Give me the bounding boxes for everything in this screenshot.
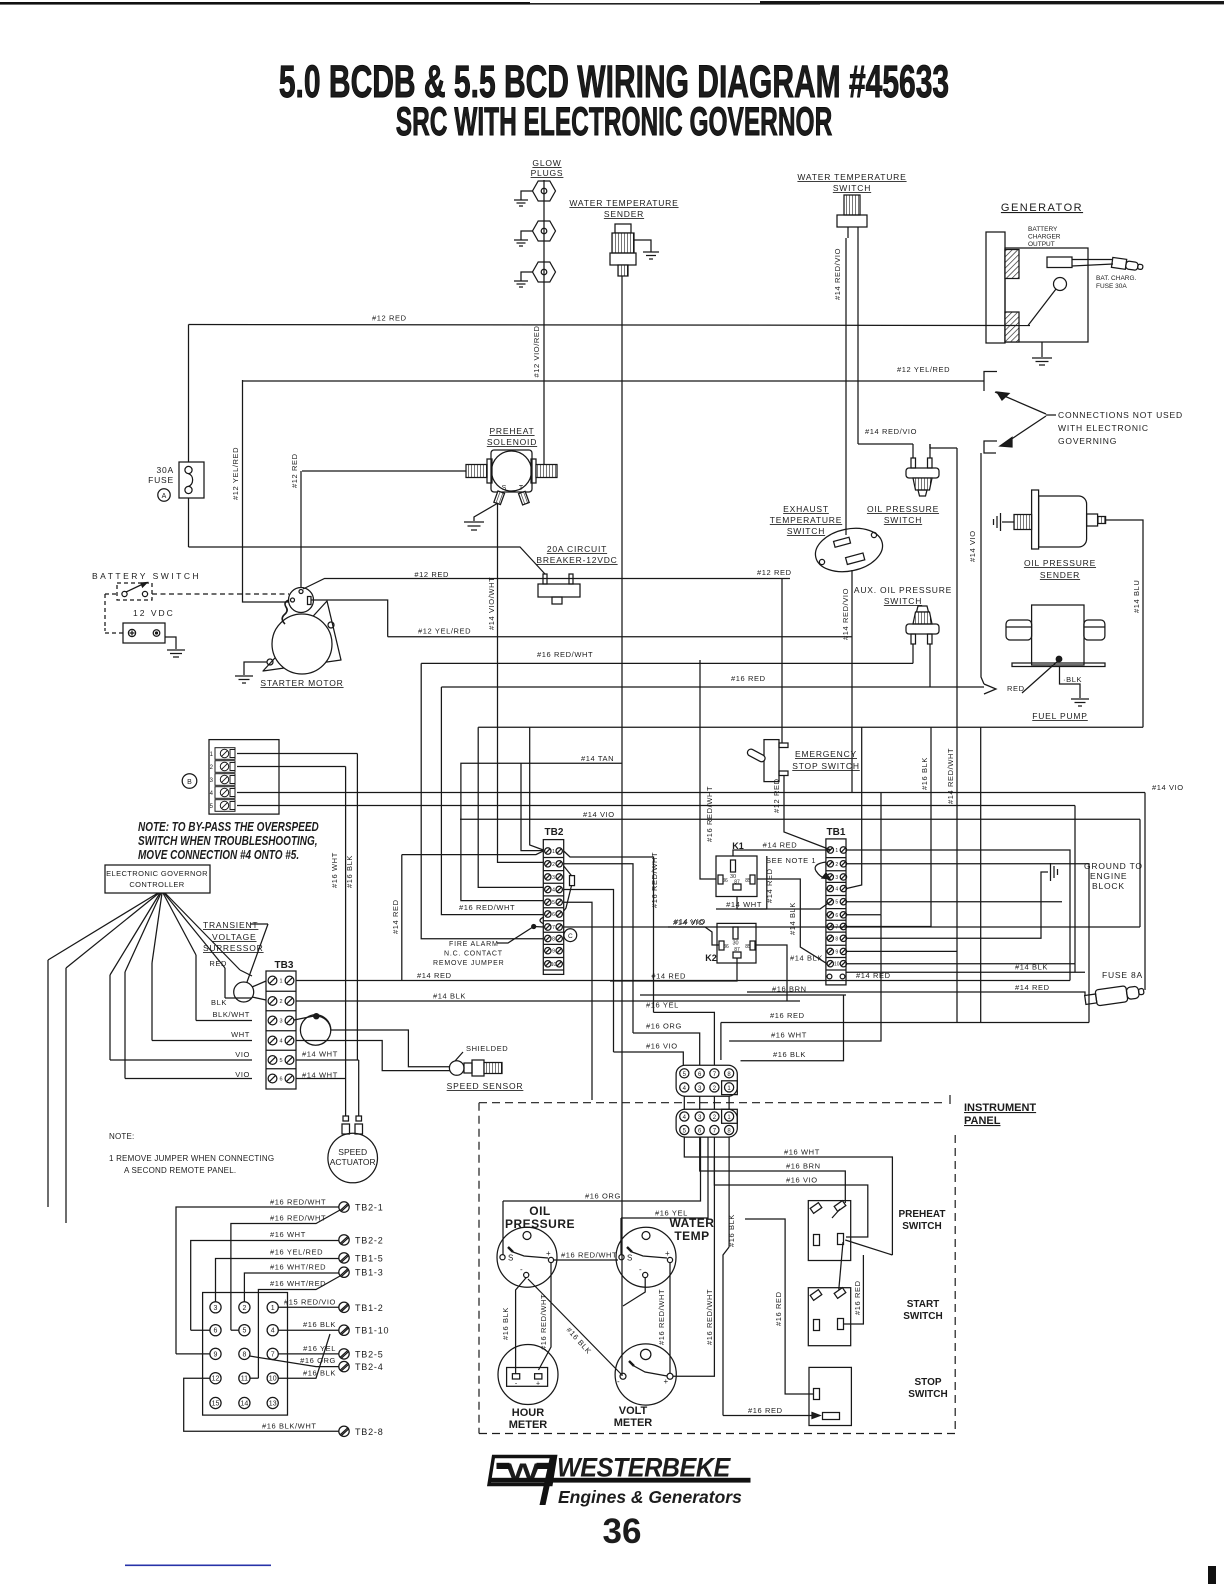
- svg-text:METER: METER: [509, 1419, 548, 1431]
- svg-text:TB1-3: TB1-3: [355, 1268, 384, 1278]
- svg-text:PLUGS: PLUGS: [531, 168, 564, 178]
- svg-text:SRC WITH ELECTRONIC GOVERNOR: SRC WITH ELECTRONIC GOVERNOR: [396, 100, 833, 145]
- svg-text:EMERGENCY: EMERGENCY: [795, 749, 857, 759]
- svg-text:10: 10: [269, 1376, 277, 1383]
- svg-text:FIRE ALARM: FIRE ALARM: [449, 941, 499, 948]
- svg-text:BLK: BLK: [211, 998, 227, 1007]
- svg-text:4: 4: [271, 1328, 275, 1335]
- svg-text:6: 6: [835, 913, 838, 919]
- svg-text:#16 VIO: #16 VIO: [646, 1042, 678, 1051]
- svg-text:TB1-10: TB1-10: [355, 1326, 389, 1336]
- svg-text:GENERATOR: GENERATOR: [1001, 202, 1083, 214]
- svg-text:#14 BLK: #14 BLK: [1015, 963, 1048, 972]
- svg-text:SWITCH WHEN TROUBLESHOOTING,: SWITCH WHEN TROUBLESHOOTING,: [138, 835, 318, 848]
- svg-text:1 REMOVE JUMPER WHEN CONNECT: 1 REMOVE JUMPER WHEN CONNECTING: [109, 1154, 274, 1163]
- svg-text:6: 6: [552, 912, 555, 918]
- svg-text:WATER: WATER: [670, 1216, 715, 1230]
- svg-text:5: 5: [242, 1328, 246, 1335]
- svg-text:WHT: WHT: [231, 1030, 250, 1039]
- svg-text:N.C. CONTACT: N.C. CONTACT: [444, 951, 503, 958]
- svg-text:#16 RED/WHT: #16 RED/WHT: [705, 786, 714, 842]
- svg-text:14: 14: [241, 1401, 249, 1408]
- svg-text:#14 TAN: #14 TAN: [581, 754, 614, 763]
- svg-text:TB2-2: TB2-2: [355, 1235, 384, 1245]
- svg-text:2: 2: [242, 1305, 246, 1312]
- svg-text:TB1-5: TB1-5: [355, 1253, 384, 1263]
- svg-text:+: +: [664, 1377, 669, 1386]
- svg-text:TB2-1: TB2-1: [355, 1203, 384, 1213]
- svg-text:#16 RED/WHT: #16 RED/WHT: [459, 903, 515, 912]
- svg-text:SWITCH: SWITCH: [908, 1389, 947, 1400]
- svg-text:87: 87: [734, 947, 740, 953]
- svg-text:#16 YEL: #16 YEL: [646, 1001, 679, 1010]
- svg-text:#16 RED/WHT: #16 RED/WHT: [537, 650, 593, 659]
- svg-text:9: 9: [552, 949, 555, 955]
- svg-text:BAT. CHARG.: BAT. CHARG.: [1096, 275, 1137, 282]
- svg-text:#12 VIO/RED: #12 VIO/RED: [532, 325, 541, 377]
- svg-text:8: 8: [552, 937, 555, 943]
- svg-text:#14 RED/WHT: #14 RED/WHT: [946, 748, 955, 804]
- svg-text:S: S: [627, 1254, 632, 1263]
- svg-text:#16 WHT: #16 WHT: [771, 1031, 807, 1040]
- svg-text:86: 86: [722, 878, 728, 884]
- svg-text:FUSE: FUSE: [148, 475, 174, 485]
- svg-text:#16 BLK: #16 BLK: [727, 1214, 736, 1247]
- svg-text:5: 5: [279, 1058, 282, 1064]
- svg-text:STOP: STOP: [914, 1377, 941, 1388]
- svg-text:STOP SWITCH: STOP SWITCH: [792, 761, 860, 771]
- svg-text:#14 BLK: #14 BLK: [790, 954, 823, 963]
- svg-text:TB3: TB3: [275, 960, 294, 971]
- svg-text:#14 RED/VIO: #14 RED/VIO: [841, 588, 850, 640]
- svg-text:#14 VIO: #14 VIO: [968, 530, 977, 562]
- svg-text:5: 5: [552, 900, 555, 906]
- svg-text:CONNECTIONS NOT USED: CONNECTIONS NOT USED: [1058, 410, 1183, 420]
- svg-text:3: 3: [279, 1019, 282, 1025]
- svg-text:#16 YEL/RED: #16 YEL/RED: [270, 1248, 323, 1257]
- svg-text:11: 11: [241, 1376, 248, 1383]
- svg-text:SOLENOID: SOLENOID: [487, 437, 537, 447]
- svg-text:#14 RED: #14 RED: [765, 868, 774, 903]
- svg-text:85: 85: [745, 944, 751, 950]
- svg-text:#16 RED/WHT: #16 RED/WHT: [561, 1251, 617, 1260]
- svg-text:STARTER MOTOR: STARTER MOTOR: [260, 678, 343, 688]
- svg-text:#16 RED/WHT: #16 RED/WHT: [270, 1214, 326, 1223]
- svg-text:OIL PRESSURE: OIL PRESSURE: [1024, 558, 1096, 568]
- svg-text:GROUND TO: GROUND TO: [1084, 861, 1143, 871]
- svg-text:EXHAUST: EXHAUST: [783, 504, 829, 514]
- svg-text:SWITCH: SWITCH: [787, 526, 825, 536]
- svg-text:6: 6: [214, 1328, 218, 1335]
- svg-text:#16 BLK: #16 BLK: [345, 855, 354, 888]
- svg-text:SWITCH: SWITCH: [903, 1311, 942, 1322]
- svg-text:2: 2: [279, 999, 282, 1005]
- svg-text:SWITCH: SWITCH: [884, 515, 922, 525]
- svg-text:#12 YEL/RED: #12 YEL/RED: [231, 447, 240, 500]
- svg-text:#16 ORG: #16 ORG: [300, 1356, 336, 1365]
- svg-text:INSTRUMENT: INSTRUMENT: [964, 1102, 1036, 1114]
- svg-text:#16 WHT: #16 WHT: [330, 852, 339, 888]
- svg-text:GLOW: GLOW: [532, 158, 561, 168]
- svg-text:1: 1: [279, 979, 282, 985]
- svg-text:#12 RED: #12 RED: [414, 570, 449, 579]
- svg-text:#16 RED/WHT: #16 RED/WHT: [650, 852, 659, 908]
- svg-text:#12 YEL/RED: #12 YEL/RED: [897, 365, 950, 374]
- svg-text:#16 RED: #16 RED: [853, 1280, 862, 1315]
- svg-text:#12 RED: #12 RED: [757, 568, 792, 577]
- svg-text:SEE NOTE 1: SEE NOTE 1: [766, 856, 816, 865]
- svg-text:3: 3: [835, 875, 838, 881]
- svg-text:#16 WHT/RED: #16 WHT/RED: [270, 1263, 326, 1272]
- svg-text:#12 RED: #12 RED: [290, 453, 299, 488]
- svg-text:#14 VIO: #14 VIO: [674, 917, 706, 926]
- svg-text:1: 1: [271, 1305, 275, 1312]
- svg-text:+: +: [536, 1381, 540, 1388]
- svg-text:A: A: [162, 493, 167, 500]
- svg-text:30: 30: [732, 941, 738, 947]
- svg-text:-: -: [639, 1265, 642, 1274]
- svg-text:#12 RED: #12 RED: [772, 778, 781, 813]
- svg-text:#14 VIO: #14 VIO: [583, 810, 615, 819]
- svg-text:2: 2: [835, 862, 838, 868]
- svg-text:85: 85: [745, 878, 751, 884]
- svg-text:B: B: [187, 779, 192, 786]
- svg-text:#16 VIO: #16 VIO: [786, 1176, 818, 1185]
- svg-text:MOVE CONNECTION #4 ONTO #5.: MOVE CONNECTION #4 ONTO #5.: [138, 849, 299, 862]
- svg-text:#16 WHT: #16 WHT: [784, 1148, 820, 1157]
- svg-text:#14 WHT: #14 WHT: [726, 900, 762, 909]
- svg-text:ACTUATOR: ACTUATOR: [330, 1157, 376, 1167]
- svg-text:#12 RED: #12 RED: [372, 314, 407, 323]
- svg-text:36: 36: [603, 1512, 642, 1551]
- svg-text:TB1-2: TB1-2: [355, 1303, 384, 1313]
- svg-text:WATER TEMPERATURE: WATER TEMPERATURE: [569, 198, 678, 208]
- svg-text:10: 10: [834, 962, 840, 968]
- svg-text:CHARGER: CHARGER: [1028, 234, 1061, 241]
- svg-text:RED: RED: [209, 959, 227, 968]
- svg-text:BATTERY: BATTERY: [1028, 226, 1058, 233]
- svg-text:1: 1: [835, 848, 838, 854]
- svg-text:T: T: [519, 485, 524, 492]
- svg-text:#16 RED: #16 RED: [731, 674, 766, 683]
- svg-text:PANEL: PANEL: [964, 1115, 1001, 1127]
- svg-text:FUEL PUMP: FUEL PUMP: [1032, 711, 1088, 721]
- svg-text:4: 4: [279, 1039, 282, 1045]
- svg-text:TB1: TB1: [827, 827, 846, 838]
- svg-text:6: 6: [279, 1077, 282, 1083]
- svg-text:BATTERY SWITCH: BATTERY SWITCH: [92, 571, 201, 581]
- svg-text:8: 8: [242, 1351, 246, 1358]
- svg-text:#14 RED: #14 RED: [391, 899, 400, 934]
- svg-text:#14 RED: #14 RED: [1015, 983, 1050, 992]
- svg-text:8: 8: [835, 936, 838, 942]
- svg-text:TB2-5: TB2-5: [355, 1349, 384, 1359]
- svg-text:K2: K2: [705, 953, 717, 963]
- svg-text:#16 RED: #16 RED: [774, 1291, 783, 1326]
- svg-text:FUSE 8A: FUSE 8A: [1102, 970, 1143, 980]
- svg-text:FUSE 30A: FUSE 30A: [1096, 283, 1127, 290]
- svg-text:3: 3: [552, 875, 555, 881]
- svg-text:PREHEAT: PREHEAT: [489, 426, 534, 436]
- svg-text:SUPRESSOR: SUPRESSOR: [203, 943, 264, 953]
- svg-text:TRANSIENT: TRANSIENT: [203, 920, 258, 930]
- svg-text:OIL: OIL: [529, 1204, 551, 1218]
- svg-text:#14 BLU: #14 BLU: [1132, 580, 1141, 613]
- svg-text:HOUR: HOUR: [512, 1407, 544, 1419]
- svg-text:#14 RED: #14 RED: [763, 841, 798, 850]
- svg-text:#16 RED: #16 RED: [770, 1011, 805, 1020]
- svg-text:TB2-8: TB2-8: [355, 1427, 384, 1437]
- svg-text:SWITCH: SWITCH: [833, 183, 871, 193]
- svg-text:CONTROLLER: CONTROLLER: [129, 880, 184, 889]
- svg-text:#14 VIO: #14 VIO: [1152, 783, 1184, 792]
- svg-text:S: S: [502, 485, 507, 492]
- svg-text:#16 YEL: #16 YEL: [303, 1344, 336, 1353]
- svg-text:#16 BLK: #16 BLK: [303, 1369, 336, 1378]
- svg-text:15: 15: [212, 1401, 220, 1408]
- svg-text:SPEED SENSOR: SPEED SENSOR: [447, 1081, 524, 1091]
- svg-text:A SECOND REMOTE PANEL.: A SECOND REMOTE PANEL.: [124, 1166, 236, 1175]
- svg-text:#14 RED/VIO: #14 RED/VIO: [865, 427, 917, 436]
- svg-text:5: 5: [835, 900, 838, 906]
- svg-text:VIO: VIO: [235, 1070, 250, 1079]
- svg-text:#16 WHT: #16 WHT: [270, 1230, 306, 1239]
- svg-text:BREAKER-12VDC: BREAKER-12VDC: [536, 555, 617, 565]
- svg-text:ELECTRONIC GOVERNOR: ELECTRONIC GOVERNOR: [106, 869, 208, 878]
- svg-text:#16 ORG: #16 ORG: [646, 1021, 682, 1030]
- svg-text:TEMPERATURE: TEMPERATURE: [770, 515, 842, 525]
- svg-text:C: C: [568, 933, 573, 940]
- svg-text:#16 BLK: #16 BLK: [920, 757, 929, 790]
- svg-text:9: 9: [214, 1351, 218, 1358]
- svg-text:#14 RED: #14 RED: [651, 972, 686, 981]
- svg-text:ENGINE: ENGINE: [1090, 871, 1127, 881]
- svg-text:RED: RED: [1007, 684, 1025, 693]
- svg-text:#14 RED/VIO: #14 RED/VIO: [833, 248, 842, 300]
- svg-text:TB2-4: TB2-4: [355, 1362, 384, 1372]
- svg-text:#14 BLK: #14 BLK: [433, 992, 466, 1001]
- svg-text:TB2: TB2: [545, 827, 564, 838]
- svg-text:#16 RED/WHT: #16 RED/WHT: [657, 1289, 666, 1345]
- svg-text:#16 ORG: #16 ORG: [585, 1192, 621, 1201]
- svg-text:1: 1: [552, 849, 555, 855]
- svg-text:AUX. OIL PRESSURE: AUX. OIL PRESSURE: [854, 585, 952, 595]
- svg-text:BLOCK: BLOCK: [1092, 881, 1125, 891]
- svg-text:OUTPUT: OUTPUT: [1028, 241, 1055, 248]
- svg-text:4: 4: [835, 887, 838, 893]
- svg-text:#16 BLK: #16 BLK: [303, 1320, 336, 1329]
- svg-text:NOTE: TO BY-PASS THE OVERSPEED: NOTE: TO BY-PASS THE OVERSPEED: [138, 821, 319, 834]
- svg-text:3: 3: [214, 1305, 218, 1312]
- svg-text:·BLK: ·BLK: [1063, 675, 1082, 684]
- svg-text:-: -: [520, 1265, 523, 1274]
- svg-text:10: 10: [551, 962, 557, 968]
- svg-text:#14 WHT: #14 WHT: [302, 1050, 338, 1059]
- svg-text:#15 RED/VIO: #15 RED/VIO: [284, 1298, 336, 1307]
- svg-text:#16 BLK: #16 BLK: [773, 1050, 806, 1059]
- svg-text:OIL PRESSURE: OIL PRESSURE: [867, 504, 939, 514]
- svg-text:#16 RED/WHT: #16 RED/WHT: [270, 1198, 326, 1207]
- svg-text:#14 VIO/WHT: #14 VIO/WHT: [487, 577, 496, 630]
- svg-text:#16 RED/WHT: #16 RED/WHT: [705, 1289, 714, 1345]
- svg-text:WITH ELECTRONIC: WITH ELECTRONIC: [1058, 423, 1149, 433]
- svg-text:+: +: [665, 1249, 670, 1258]
- svg-text:#14 BLK: #14 BLK: [788, 902, 797, 935]
- svg-text:GOVERNING: GOVERNING: [1058, 436, 1117, 446]
- svg-text:WATER TEMPERATURE: WATER TEMPERATURE: [797, 172, 906, 182]
- svg-text:9: 9: [835, 949, 838, 955]
- svg-text:METER: METER: [614, 1417, 653, 1429]
- svg-text:SHIELDED: SHIELDED: [466, 1044, 508, 1053]
- svg-text:SWITCH: SWITCH: [902, 1221, 941, 1232]
- svg-text:4: 4: [552, 888, 555, 894]
- svg-text:START: START: [907, 1299, 940, 1310]
- svg-text:SWITCH: SWITCH: [884, 596, 922, 606]
- svg-text:SENDER: SENDER: [604, 209, 644, 219]
- svg-text:+: +: [546, 1249, 551, 1258]
- svg-text:SENDER: SENDER: [1040, 570, 1080, 580]
- svg-text:NOTE:: NOTE:: [109, 1132, 134, 1141]
- svg-text:12 VDC: 12 VDC: [133, 608, 175, 618]
- svg-text:#16 RED: #16 RED: [748, 1406, 783, 1415]
- svg-text:86: 86: [723, 944, 729, 950]
- svg-text:20A CIRCUIT: 20A CIRCUIT: [547, 544, 607, 554]
- svg-text:2: 2: [552, 862, 555, 868]
- svg-text:REMOVE JUMPER: REMOVE JUMPER: [433, 960, 504, 967]
- svg-text:#16 WHT/RED: #16 WHT/RED: [270, 1279, 326, 1288]
- svg-text:7: 7: [271, 1351, 275, 1358]
- svg-text:-: -: [617, 1377, 620, 1386]
- svg-text:7: 7: [835, 925, 838, 931]
- svg-text:7: 7: [552, 925, 555, 931]
- svg-text:87: 87: [734, 880, 740, 886]
- svg-text:30A: 30A: [156, 465, 174, 475]
- svg-text:#14 RED: #14 RED: [417, 971, 452, 980]
- svg-text:S: S: [508, 1254, 513, 1263]
- svg-text:12: 12: [212, 1376, 220, 1383]
- svg-text:SPEED: SPEED: [338, 1147, 367, 1157]
- svg-text:#12 YEL/RED: #12 YEL/RED: [418, 627, 471, 636]
- svg-text:#16 RED/WHT: #16 RED/WHT: [539, 1294, 548, 1350]
- svg-text:VIO: VIO: [235, 1050, 250, 1059]
- svg-text:#16 BRN: #16 BRN: [786, 1162, 821, 1171]
- svg-text:Engines & Generators: Engines & Generators: [558, 1487, 742, 1507]
- svg-text:#16 BLK: #16 BLK: [501, 1307, 510, 1340]
- svg-text:13: 13: [269, 1401, 277, 1408]
- svg-text:TEMP: TEMP: [674, 1229, 709, 1243]
- svg-text:PREHEAT: PREHEAT: [898, 1209, 945, 1220]
- svg-text:VOLTAGE: VOLTAGE: [212, 932, 257, 942]
- svg-text:VOLT: VOLT: [619, 1405, 648, 1417]
- svg-text:#16 BLK/WHT: #16 BLK/WHT: [262, 1422, 317, 1431]
- svg-text:BLK/WHT: BLK/WHT: [212, 1010, 250, 1019]
